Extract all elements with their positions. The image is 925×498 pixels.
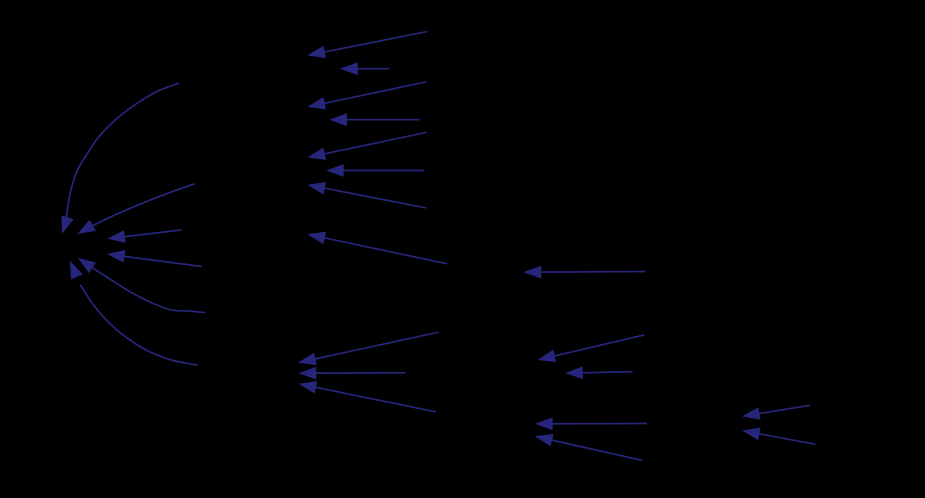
edge C1	[526, 267, 646, 278]
edge L4	[109, 251, 202, 267]
edge A5	[309, 132, 426, 159]
edge B2	[537, 435, 642, 461]
edge M3	[301, 382, 436, 412]
edge R1	[744, 405, 810, 419]
edge A2	[342, 63, 389, 74]
edge A4	[331, 114, 419, 125]
edge M2	[301, 368, 406, 379]
edge R2	[744, 428, 816, 444]
edge S2	[567, 367, 632, 378]
edge A3	[309, 82, 426, 109]
edge L5	[80, 259, 206, 313]
edge L2	[79, 184, 195, 233]
edge M1	[300, 332, 438, 364]
edge A1	[309, 32, 427, 58]
edge A7	[309, 183, 426, 208]
edge L6	[71, 263, 198, 366]
edge A6	[328, 165, 424, 176]
edge B1	[537, 418, 647, 429]
edge S1	[540, 335, 645, 361]
edge A8	[309, 233, 447, 264]
edge L3	[109, 230, 181, 242]
edge L1	[62, 83, 179, 232]
